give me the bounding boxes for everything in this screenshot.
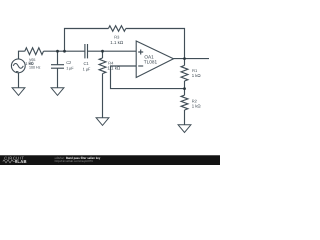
svg-text:1 µF: 1 µF xyxy=(83,67,91,72)
svg-text:TL081: TL081 xyxy=(144,60,158,65)
svg-text:1.1 kΩ: 1.1 kΩ xyxy=(107,66,121,71)
svg-text:100 Hz: 100 Hz xyxy=(29,66,41,70)
svg-text:1 kΩ: 1 kΩ xyxy=(192,73,202,78)
svg-text:1 kΩ: 1 kΩ xyxy=(192,104,202,109)
svg-text:R3: R3 xyxy=(114,35,120,40)
svg-text:LAB: LAB xyxy=(17,159,26,164)
svg-text:1 µF: 1 µF xyxy=(66,66,74,70)
svg-text:C1: C1 xyxy=(84,61,90,66)
svg-text:http:∕∕circuitlab.com∕csqmt976: http:∕∕circuitlab.com∕csqmt976 xyxy=(55,159,94,163)
svg-text:1.1 kΩ: 1.1 kΩ xyxy=(110,40,124,45)
svg-text:C2: C2 xyxy=(66,60,72,65)
